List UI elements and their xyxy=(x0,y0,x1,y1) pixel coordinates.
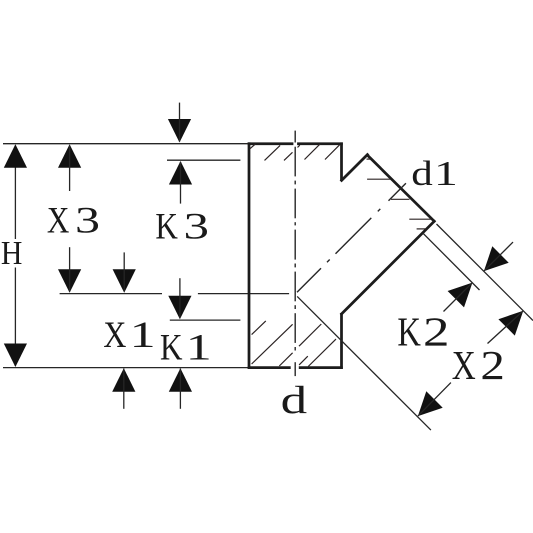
hatch top band mark 5 xyxy=(325,145,340,160)
hatch branch-end mark 3 xyxy=(409,218,431,220)
dimension K1 lower tail xyxy=(179,369,181,409)
hatch top band mark 3 right piece xyxy=(298,145,300,147)
hatch bottom block mark 4 xyxy=(299,356,308,365)
dimension X1 arrow down to line C xyxy=(113,269,136,293)
svg-text:1: 1 xyxy=(186,327,212,368)
svg-text:2: 2 xyxy=(480,342,505,388)
hatch bottom block mark 3 left piece xyxy=(279,353,292,366)
hatch top band mark 3 left piece xyxy=(284,152,293,160)
dimension X2 upper tail xyxy=(488,311,524,344)
dimension X3 upper tail xyxy=(69,146,71,192)
dimension K2 upper tail xyxy=(484,242,513,271)
extension line P2 (branch end face prolongation) xyxy=(437,224,533,321)
svg-text:1: 1 xyxy=(130,315,156,356)
dimension H arrow up xyxy=(4,144,27,168)
hatch branch-end mark 1 xyxy=(367,178,390,180)
svg-text:1: 1 xyxy=(434,154,458,193)
dimension X1 lower tail xyxy=(123,369,125,409)
dimension X3 arrow down xyxy=(58,269,81,293)
svg-text:X: X xyxy=(103,315,126,356)
dimension X3 lower tail xyxy=(69,247,71,291)
dimension X1 upper tail xyxy=(123,252,125,291)
hatch branch-end mark 4 xyxy=(417,228,427,230)
hatch branch-end mark 0 xyxy=(367,158,371,160)
dimension K1 arrow down to line D xyxy=(168,296,191,320)
dimension X3 arrow up xyxy=(58,144,81,168)
body outline: right edge above notch xyxy=(340,142,343,181)
dimension K2 lower tail xyxy=(444,283,473,312)
body outline: bottom edge left of centerline xyxy=(248,366,291,369)
svg-text:K: K xyxy=(160,327,183,368)
svg-text:d: d xyxy=(281,378,308,422)
dimension K3 lower tail xyxy=(180,162,182,204)
body outline: right edge below branch xyxy=(340,313,343,369)
dimension H line lower segment xyxy=(14,268,16,367)
dimension H line upper segment xyxy=(14,146,16,240)
svg-text:H: H xyxy=(1,235,23,272)
dimension H arrow down xyxy=(4,344,27,368)
svg-text:3: 3 xyxy=(75,200,100,241)
hatch bottom block mark 1 xyxy=(252,321,266,335)
extension line C (branch center level, right piece) xyxy=(198,293,289,295)
dimension K2 outside arrow at P2 xyxy=(484,246,509,271)
body outline: top edge right of centerline xyxy=(297,142,343,145)
dimension K3 outside arrow above line A xyxy=(168,119,191,143)
dimension K1 upper tail xyxy=(179,278,181,318)
dimension K1 arrow up to line E xyxy=(169,368,192,392)
dimension X2 arrow at P2 xyxy=(498,311,523,336)
branch lower wall xyxy=(341,220,436,315)
dimension K3 arrow up to line B xyxy=(169,161,192,185)
svg-text:3: 3 xyxy=(184,207,210,248)
svg-text:d: d xyxy=(411,154,433,193)
hatch bottom block mark 2 xyxy=(252,324,293,364)
hatch top band mark 4 xyxy=(305,144,321,160)
extension line D (K1 socket level) xyxy=(170,319,241,321)
dimension X1 arrow up to line E xyxy=(112,368,135,392)
body outline: top edge left of centerline xyxy=(248,142,294,145)
svg-text:X: X xyxy=(47,200,70,241)
extension line P1 (through center, 45deg) xyxy=(297,296,431,430)
dimension X2 arrow at P1 xyxy=(418,391,443,416)
extension line E (bottom edge level) xyxy=(3,367,248,369)
hatch bottom block mark 5 xyxy=(308,339,336,366)
extension line C (branch center level, left piece) xyxy=(60,293,162,295)
hatch top band mark 2 xyxy=(265,145,281,160)
extension line P3 (branch socket level) xyxy=(423,233,480,290)
branch 45deg centerline (dash-dot) xyxy=(297,183,406,292)
extension line A (top edge level) xyxy=(3,143,248,145)
extension line B (K3 socket level) xyxy=(167,159,240,161)
hatch top band mark 1 xyxy=(250,144,256,149)
main pipe vertical centerline (dash-dot) xyxy=(294,131,296,377)
branch end face xyxy=(367,154,436,222)
body outline: bottom edge right of centerline xyxy=(299,366,343,369)
branch upper-left wall (notch diagonal) xyxy=(341,154,369,182)
dimension K3 upper outside tail xyxy=(179,103,181,142)
dimension K2 arrow at P3 xyxy=(448,283,473,308)
hatch branch-end mark 2 xyxy=(391,198,410,200)
body outline: left edge xyxy=(248,142,251,369)
svg-text:X: X xyxy=(452,342,476,388)
dimension X2 lower tail xyxy=(418,383,451,417)
svg-text:K: K xyxy=(155,207,178,248)
svg-text:2: 2 xyxy=(423,309,450,355)
svg-text:K: K xyxy=(397,309,421,355)
hatch bottom block mark 3 right piece xyxy=(299,324,321,346)
